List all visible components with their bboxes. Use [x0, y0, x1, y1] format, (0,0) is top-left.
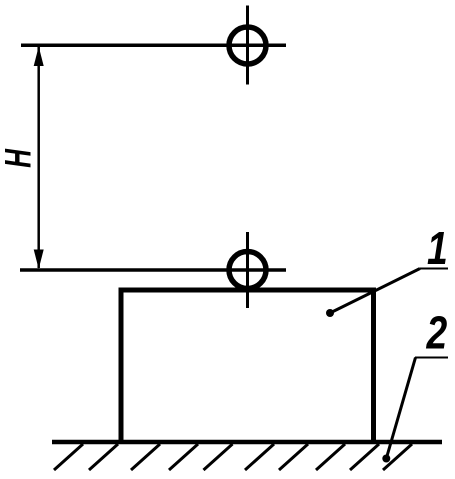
svg-text:1: 1 — [427, 222, 448, 274]
svg-text:2: 2 — [426, 307, 448, 359]
svg-text:H: H — [0, 149, 39, 168]
